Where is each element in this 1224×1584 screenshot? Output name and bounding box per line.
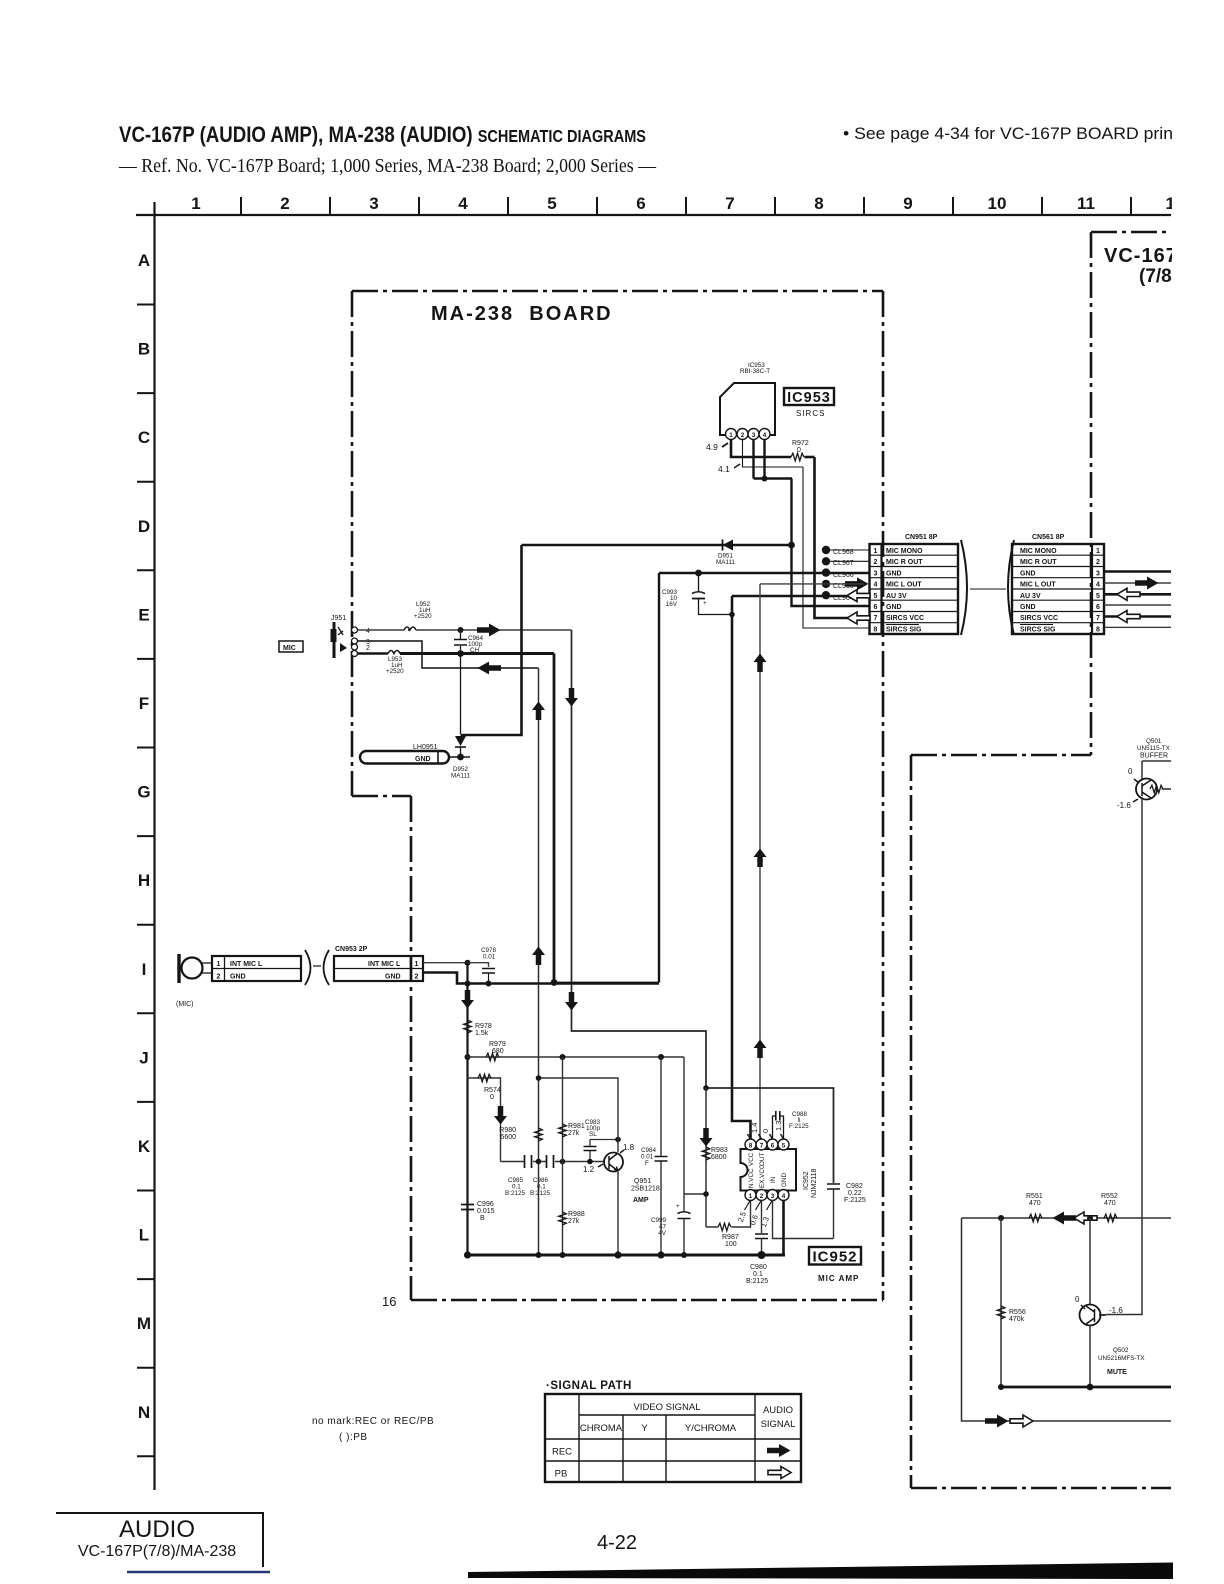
wire Q501 base top: [1142, 761, 1171, 779]
svg-text:0.01: 0.01: [483, 954, 496, 961]
svg-text:B: B: [480, 1215, 485, 1222]
svg-text:R552: R552: [1101, 1193, 1118, 1200]
wire pin2 to C980: [761, 1200, 763, 1233]
svg-text:0.1: 0.1: [753, 1271, 763, 1278]
wire V6 mic signal down: [759, 584, 761, 1139]
svg-text:9: 9: [903, 194, 912, 213]
wire Q501 collector down: [1106, 797, 1142, 1315]
node C980 rail: [758, 1251, 766, 1259]
arrow filled right 1421: [985, 1415, 1009, 1428]
svg-text:AUDIO: AUDIO: [119, 1516, 195, 1543]
svg-text:K: K: [138, 1137, 151, 1156]
arrow open right 1421: [1010, 1415, 1033, 1427]
svg-text:IC952: IC952: [812, 1249, 857, 1266]
arrow filled left mute row: [1053, 1212, 1077, 1225]
svg-text:·SIGNAL PATH: ·SIGNAL PATH: [546, 1380, 632, 1392]
svg-text:0.22: 0.22: [848, 1190, 862, 1197]
IC952 pin 4: [778, 1190, 789, 1201]
transistor Q501: [1136, 779, 1157, 800]
svg-text:3: 3: [369, 194, 378, 213]
wire R556 branch: [1000, 1218, 1002, 1387]
svg-text:RBI-38C-T: RBI-38C-T: [740, 368, 770, 375]
wire pin2 down: [743, 440, 804, 467]
capacitor C986: [547, 1155, 554, 1168]
diode D951 line: [522, 544, 792, 546]
svg-text:2: 2: [280, 194, 289, 213]
svg-text:Y/CHROMA: Y/CHROMA: [685, 1423, 737, 1434]
grid ruler left line: [153, 202, 155, 1490]
arrow up V6 a: [754, 654, 767, 673]
svg-text:8: 8: [814, 194, 823, 213]
wire V10 sircs vcc: [815, 457, 849, 618]
svg-text:D: D: [138, 517, 150, 536]
svg-text:1: 1: [191, 194, 200, 213]
wire Q502 collector: [1089, 1218, 1091, 1305]
svg-text:M: M: [137, 1314, 151, 1333]
svg-text:MA111: MA111: [451, 773, 471, 780]
jack J951 body: [333, 622, 336, 658]
wire gnd row 1387: [1001, 1386, 1171, 1389]
node rail c: [560, 1252, 566, 1258]
resistor R987: [718, 1223, 731, 1231]
svg-text:AUDIO: AUDIO: [763, 1405, 793, 1416]
IC952 pin 7: [756, 1139, 767, 1150]
svg-text:SIGNAL: SIGNAL: [761, 1419, 796, 1430]
footer box: [56, 1513, 263, 1567]
arrow down V4 b: [565, 992, 578, 1011]
IC953 pin 1: [726, 429, 737, 440]
svg-text:5: 5: [547, 194, 556, 213]
wire V8 from IC953: [792, 479, 870, 607]
svg-text:4.9: 4.9: [706, 442, 718, 452]
svg-text:SIRCS: SIRCS: [796, 409, 825, 418]
svg-text:+: +: [676, 1203, 680, 1210]
svg-text:-1.6: -1.6: [1109, 1306, 1123, 1315]
resistor R972: [791, 453, 804, 461]
jack contact 4: [352, 627, 358, 633]
node rail d: [614, 1251, 621, 1258]
node rail e: [657, 1251, 664, 1258]
svg-text:4: 4: [782, 1193, 786, 1200]
wire V9 pin2 riser: [803, 467, 869, 628]
wire V706: [705, 1088, 707, 1227]
resistor R983: [702, 1147, 710, 1160]
wire cross link 982: [554, 982, 659, 984]
svg-text:-1.6: -1.6: [1117, 801, 1131, 810]
svg-text:27k: 27k: [568, 1130, 580, 1137]
column ticks: [241, 197, 1131, 215]
svg-text:2SB1218: 2SB1218: [631, 1186, 660, 1193]
node rail/gnd row: [465, 981, 471, 987]
svg-text:4: 4: [763, 432, 767, 439]
svg-text:N: N: [138, 1403, 150, 1422]
svg-text:MA-238 BOARD: MA-238 BOARD: [431, 303, 613, 325]
arrow up V2 a: [532, 702, 545, 721]
node 661/1057: [658, 1054, 664, 1060]
wire mute row 1218: [962, 1217, 1172, 1219]
node C978 gnd: [486, 981, 492, 987]
svg-text:5: 5: [874, 593, 878, 600]
ground rail mic amp: [468, 1254, 786, 1257]
svg-text:( ):PB: ( ):PB: [339, 1432, 368, 1443]
jack contact 1: [352, 651, 358, 657]
svg-text:R972: R972: [792, 440, 809, 447]
svg-text:3: 3: [771, 1193, 775, 1200]
arrow down V706: [700, 1128, 713, 1147]
IC953 pin 2: [737, 429, 748, 440]
capacitor C988: [773, 1116, 784, 1139]
svg-text:N.VCC: N.VCC: [748, 1168, 755, 1188]
svg-text:Q951: Q951: [634, 1178, 651, 1185]
svg-text:SIRCS SIG: SIRCS SIG: [1020, 626, 1056, 633]
svg-text:B: B: [138, 340, 150, 359]
wire collector feed: [539, 1078, 619, 1152]
svg-text:1.2: 1.2: [583, 1165, 595, 1174]
svg-text:VC-167P (AUDIO AMP), MA-238 (A: VC-167P (AUDIO AMP), MA-238 (AUDIO) SCHE…: [119, 122, 646, 147]
svg-text:E: E: [138, 605, 149, 624]
svg-text:4: 4: [458, 194, 468, 213]
svg-text:C988: C988: [792, 1111, 808, 1118]
svg-text:R574: R574: [484, 1087, 501, 1094]
board break marks between connectors: [961, 540, 967, 635]
svg-text:AU 3V: AU 3V: [886, 593, 907, 600]
svg-text:no mark:REC or REC/PB: no mark:REC or REC/PB: [312, 1416, 434, 1427]
svg-text:1: 1: [874, 548, 878, 555]
wire gnd bar tail: [449, 756, 470, 758]
wire V2 riser (pin3 net): [538, 668, 540, 1255]
svg-text:MIC: MIC: [283, 645, 296, 652]
capacitor C980: [755, 1234, 768, 1239]
svg-text:R981: R981: [568, 1123, 585, 1130]
node 554/982: [551, 979, 558, 986]
resistor R988: [559, 1212, 567, 1225]
svg-text:7: 7: [725, 194, 734, 213]
wire pin3 pin4 join: [754, 440, 793, 479]
svg-text:G: G: [137, 783, 150, 802]
svg-text:2: 2: [741, 432, 745, 439]
svg-text:SIRCS SIG: SIRCS SIG: [886, 626, 922, 633]
legend filled arrow: [767, 1444, 791, 1457]
svg-text:1.3: 1.3: [774, 1121, 783, 1131]
inductor L953: [358, 652, 388, 655]
svg-text:IC952: IC952: [803, 1171, 810, 1190]
wire R574 branch: [468, 1078, 501, 1162]
svg-text:CN561 8P: CN561 8P: [1032, 534, 1065, 541]
svg-text:16V: 16V: [666, 601, 678, 608]
svg-text:R988: R988: [568, 1211, 585, 1218]
svg-text:MIC R OUT: MIC R OUT: [1020, 559, 1057, 566]
svg-text:0: 0: [797, 447, 801, 454]
svg-text:1.4: 1.4: [750, 1123, 759, 1133]
svg-text:AMP: AMP: [633, 1197, 649, 1204]
arrow open left mute row: [1074, 1212, 1097, 1224]
IC952 pin 1: [745, 1190, 756, 1201]
node 1090/1218: [1087, 1215, 1093, 1221]
node int mic: [465, 960, 471, 966]
svg-text:0: 0: [1128, 767, 1133, 776]
svg-text:(MIC): (MIC): [176, 1001, 194, 1008]
node V8 bottom: [788, 542, 795, 549]
MA-238 board outline (dash-dot): [352, 291, 883, 1300]
capacitor C984: [660, 1057, 662, 1255]
node 1001/1387: [998, 1384, 1004, 1390]
svg-text:F: F: [139, 694, 149, 713]
svg-text:1.8: 1.8: [623, 1143, 635, 1152]
arrow down R574 branch: [494, 1106, 507, 1125]
svg-text:• See page 4-34 for VC-167P BO: • See page 4-34 for VC-167P BOARD prin: [843, 125, 1173, 143]
svg-text:3: 3: [752, 432, 756, 439]
svg-text:I: I: [142, 960, 147, 979]
wire V684: [683, 1057, 685, 1211]
wire CN561 row5 out: [1104, 593, 1171, 596]
svg-text:R551: R551: [1026, 1193, 1043, 1200]
IC952 pin names: [748, 1152, 788, 1188]
svg-text:GND: GND: [230, 973, 246, 980]
svg-text:MUTE: MUTE: [1107, 1369, 1127, 1376]
svg-text:MA111: MA111: [716, 559, 736, 566]
svg-text:— Ref. No. VC-167P Board; 1,00: — Ref. No. VC-167P Board; 1,000 Series, …: [118, 156, 656, 177]
connector INT MIC plug table: [212, 956, 301, 981]
wire V1 mic-L riser: [461, 545, 522, 735]
svg-text:UN5115-TX: UN5115-TX: [1137, 745, 1171, 752]
svg-text:2: 2: [217, 973, 221, 980]
svg-text:10: 10: [988, 194, 1007, 213]
svg-text:2: 2: [874, 559, 878, 566]
IC952 pin 3: [767, 1190, 778, 1201]
wire V3b: [562, 1057, 564, 1255]
IC952 part number vertical: [803, 1168, 818, 1198]
node CL965: [822, 580, 830, 588]
svg-text:11: 11: [1077, 194, 1095, 213]
svg-text:(7/8: (7/8: [1139, 266, 1172, 287]
wire loop to 1421: [962, 1218, 1172, 1421]
wire row7 open arrow out of CN951: [847, 612, 870, 624]
node 1090/1387: [1087, 1384, 1094, 1391]
wire bias row 1057: [468, 1056, 685, 1058]
resistor Q501 emitter: [1150, 785, 1163, 793]
wire R972 to bus: [805, 456, 815, 459]
svg-text:MIC MONO: MIC MONO: [1020, 548, 1057, 555]
wire row3 gnd to CN951: [659, 572, 869, 575]
svg-text:470: 470: [1104, 1200, 1116, 1207]
wire jack pin3: [358, 641, 539, 668]
svg-text:C996: C996: [477, 1201, 494, 1208]
wire CN561 row7 out: [1104, 615, 1171, 618]
svg-text:470k: 470k: [1009, 1316, 1025, 1323]
IC953 pin 3: [748, 429, 759, 440]
svg-text:2: 2: [415, 973, 419, 980]
svg-text:1: 1: [749, 1193, 753, 1200]
IC953 boxed designator: [784, 388, 834, 405]
svg-text:8: 8: [749, 1143, 753, 1150]
transistor Q502: [1080, 1305, 1101, 1326]
svg-text:SIRCS VCC: SIRCS VCC: [1020, 615, 1058, 622]
svg-text:0: 0: [761, 1129, 770, 1133]
svg-text:BUFFER: BUFFER: [1140, 753, 1168, 760]
svg-text:6: 6: [771, 1143, 775, 1150]
wire CN953 pin1: [423, 962, 468, 964]
grid ruler top line: [136, 214, 1171, 216]
svg-text:VC-167P(7/8)/MA-238: VC-167P(7/8)/MA-238: [78, 1543, 236, 1560]
svg-text:0: 0: [1075, 1295, 1080, 1304]
svg-text:1: 1: [217, 961, 221, 968]
IC952 pin 6: [767, 1139, 778, 1150]
microphone symbol: [177, 954, 180, 983]
IC952 pin 2: [756, 1190, 767, 1201]
IC952 body: [741, 1149, 797, 1191]
svg-text:PB: PB: [555, 1469, 568, 1480]
wire V3 gnd riser: [553, 654, 556, 983]
svg-text:INT MIC L: INT MIC L: [368, 961, 401, 968]
svg-text:0.015: 0.015: [477, 1208, 495, 1215]
svg-text:6: 6: [1096, 604, 1100, 611]
svg-text:EX.VCC: EX.VCC: [759, 1164, 766, 1188]
arrow up V2 b: [532, 947, 545, 966]
node 706/1088: [703, 1085, 709, 1091]
svg-text:27k: 27k: [568, 1218, 580, 1225]
svg-text:IC953: IC953: [787, 390, 831, 406]
svg-text:5: 5: [782, 1143, 786, 1150]
svg-text:GND: GND: [1020, 604, 1036, 611]
svg-text:7: 7: [1096, 615, 1100, 622]
svg-text:B:2125: B:2125: [746, 1278, 768, 1285]
svg-text:IN: IN: [770, 1176, 777, 1183]
svg-text:MIC L OUT: MIC L OUT: [1020, 582, 1056, 589]
svg-text:F:2125: F:2125: [789, 1123, 809, 1130]
svg-text:NJM2118: NJM2118: [811, 1168, 818, 1198]
wire link 1194: [684, 1193, 706, 1195]
jack contact 3: [352, 638, 358, 644]
node CL966: [822, 568, 830, 576]
svg-text:+2520: +2520: [414, 613, 432, 620]
wire row4 to CN951: [760, 583, 864, 585]
svg-text:GND: GND: [886, 604, 902, 611]
svg-text:R983: R983: [711, 1147, 728, 1154]
wire link between connectors: [970, 588, 1006, 590]
wire R987 to pin1: [706, 1200, 751, 1227]
node base row V2: [536, 1159, 542, 1165]
wire loop 1088: [706, 1088, 834, 1183]
arrow down left rail: [461, 990, 474, 1009]
node CL968: [822, 546, 830, 554]
voltage labels IC952 top: [750, 1121, 783, 1133]
transistor Q951: [604, 1153, 623, 1172]
svg-text:R979: R979: [489, 1041, 506, 1048]
svg-text:F: F: [645, 1160, 649, 1167]
svg-text:J951: J951: [331, 615, 346, 622]
wire row5 open arrow out of CN951: [847, 590, 870, 602]
svg-text:Q501: Q501: [1146, 738, 1162, 745]
connector CN561 8P table: [1012, 544, 1104, 634]
node CL967: [822, 557, 830, 565]
IC953 remote sensor symbol: [720, 383, 775, 435]
resistor R551: [1029, 1214, 1042, 1222]
capacitor C996: [461, 1205, 474, 1210]
svg-text:B:2125: B:2125: [505, 1190, 525, 1197]
svg-text:8: 8: [1096, 626, 1100, 633]
arrow up V6 b: [754, 849, 767, 868]
svg-text:5600: 5600: [500, 1134, 516, 1141]
wire L952 to bus: [416, 629, 572, 631]
signal arrow left pin3: [478, 662, 502, 675]
node 1057: [465, 1054, 471, 1060]
node C964 top: [458, 627, 464, 633]
wire V7 au3v down: [732, 596, 751, 1139]
svg-text:8: 8: [874, 626, 878, 633]
wire CN561 row6 out: [1104, 604, 1171, 606]
node 706/1194: [703, 1191, 709, 1197]
IC952 pin 5: [778, 1139, 789, 1150]
svg-text:C982: C982: [846, 1183, 863, 1190]
wire CN953 pin2 gnd: [423, 973, 659, 984]
svg-text:H: H: [138, 871, 150, 890]
node gnd bus / C964: [457, 650, 464, 657]
svg-text:3: 3: [1096, 570, 1100, 577]
svg-text:680: 680: [492, 1048, 504, 1055]
svg-text:GND: GND: [385, 973, 401, 980]
connector CN951 8P table: [870, 544, 959, 634]
wire CN561 row4 out: [1104, 582, 1171, 584]
capacitor C983: [590, 1140, 618, 1162]
resistor R980: [535, 1128, 543, 1141]
node V2 1078: [536, 1075, 542, 1081]
svg-text:B:2125: B:2125: [530, 1190, 550, 1197]
svg-text:4: 4: [874, 582, 878, 589]
svg-text:2: 2: [1096, 559, 1100, 566]
diode D952: [460, 654, 462, 735]
svg-text:+2520: +2520: [386, 668, 404, 675]
IC952 pin 8: [745, 1139, 756, 1150]
arrow up V6 c: [754, 1040, 767, 1059]
svg-text:4-22: 4-22: [597, 1532, 637, 1554]
svg-text:CN951 8P: CN951 8P: [905, 534, 938, 541]
capacitor C993 electrolytic: [698, 576, 700, 591]
MIC boxed label: [279, 641, 303, 652]
node base row V3b: [560, 1159, 566, 1165]
svg-text:L: L: [139, 1226, 149, 1245]
wire pin3 loop: [773, 1200, 834, 1239]
wire CN561 row8 out: [1104, 626, 1171, 628]
resistor R574: [478, 1074, 491, 1082]
svg-text:GND: GND: [415, 756, 431, 763]
svg-text:F:2125: F:2125: [844, 1197, 866, 1204]
svg-text:6800: 6800: [711, 1154, 727, 1161]
svg-text:GND: GND: [1020, 570, 1036, 577]
svg-text:AU 3V: AU 3V: [1020, 593, 1041, 600]
resistor R979: [486, 1053, 499, 1061]
svg-text:MIC MONO: MIC MONO: [886, 548, 923, 555]
svg-text:0: 0: [490, 1094, 494, 1101]
svg-text:CN953 2P: CN953 2P: [335, 946, 368, 953]
svg-text:3: 3: [874, 570, 878, 577]
svg-text:Y: Y: [641, 1423, 648, 1434]
wire row4 arrow into CN951: [845, 577, 869, 590]
svg-text:6: 6: [874, 604, 878, 611]
svg-text:4V: 4V: [658, 1230, 667, 1237]
IC953 pin 4: [759, 429, 770, 440]
node rail a: [464, 1251, 471, 1258]
svg-text:GND: GND: [886, 570, 902, 577]
wire row5 au3v to CN951: [732, 595, 848, 598]
svg-text:VCC: VCC: [748, 1152, 755, 1166]
svg-text:1: 1: [415, 961, 419, 968]
svg-text:1: 1: [1096, 548, 1100, 555]
node rail b: [536, 1252, 542, 1258]
svg-text:4: 4: [366, 628, 370, 635]
resistor R556: [997, 1306, 1005, 1319]
VC-167P board outline (dash-dot): [911, 232, 1171, 1488]
legend open arrow: [768, 1467, 791, 1479]
